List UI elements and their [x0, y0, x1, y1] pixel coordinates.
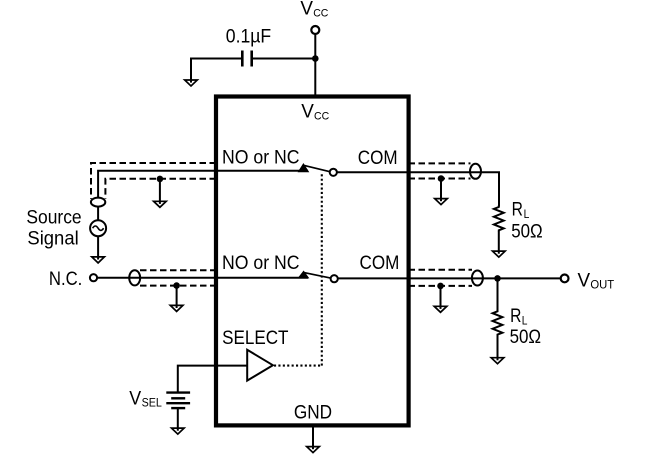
switch S1 throw contact arrowhead [299, 164, 309, 172]
switch S2 blade [304, 273, 331, 279]
node shield ground junction (bottom-right) [437, 283, 444, 290]
wire shield junction to ground (bottom-right) [440, 286, 442, 309]
buffer driver U2 [247, 350, 273, 381]
node shield ground junction (bottom-left) [173, 282, 180, 289]
node shield ground junction (top-right) [438, 175, 445, 182]
wire shield junction to ground (top-left) [159, 179, 161, 204]
svg-text:COM: COM [360, 253, 400, 274]
wire source to coax entry [97, 206, 99, 220]
coax entry ellipse (source cable) [91, 198, 105, 207]
svg-text:L: L [522, 314, 528, 327]
wire VSEL to buffer input [178, 366, 247, 392]
switch S2 throw contact arrowhead [299, 271, 309, 278]
wire resistor to ground (bottom) [497, 336, 499, 361]
shield upper dashed (bottom-right cable) [409, 269, 473, 271]
wire COM (bottom) to VOUT [338, 277, 561, 279]
svg-text:50Ω: 50Ω [511, 221, 543, 242]
coax entry ellipse (top-right cable) [470, 164, 481, 179]
terminal VOUT [561, 275, 569, 283]
svg-text:0.1µF: 0.1µF [226, 26, 271, 47]
wire junction to capacitor right plate [253, 58, 315, 60]
svg-text:GND: GND [294, 403, 332, 424]
ground (source) [92, 256, 105, 263]
wire N.C. to switch [97, 277, 308, 279]
label VSEL [129, 389, 162, 410]
svg-text:N.C.: N.C. [49, 269, 82, 290]
wire source cable center conductor [98, 171, 308, 198]
IC box U1 [216, 97, 409, 426]
svg-text:SEL: SEL [142, 395, 163, 409]
coax entry ellipse (bottom-right cable) [472, 271, 483, 286]
capacitor C1 0.1uF [242, 51, 251, 67]
wire output junction to resistor [497, 278, 499, 310]
svg-text:V: V [300, 0, 313, 20]
wire battery to ground [177, 408, 179, 431]
node output junction [494, 275, 501, 282]
label VOUT [578, 270, 615, 291]
node shield ground junction (top-left) [157, 176, 164, 183]
ground (bottom RL) [491, 357, 504, 364]
source V1 (sine source) [90, 220, 106, 236]
select control dotted line (horizontal) [274, 365, 322, 367]
wire GND pin [312, 428, 314, 450]
shield upper dashed (N.C. cable) [140, 269, 216, 271]
svg-text:50Ω: 50Ω [510, 327, 541, 348]
shield outer dashed (source cable) [91, 163, 216, 199]
wire shield junction to ground (bottom-left) [176, 286, 178, 308]
switch S2 pole contact circle [331, 275, 338, 282]
svg-text:R: R [510, 306, 521, 327]
svg-text:Source: Source [26, 207, 81, 228]
switch S1 pole contact circle [330, 169, 337, 176]
svg-text:Signal: Signal [27, 229, 78, 250]
terminal VCC [311, 26, 319, 34]
svg-text:NO or NC: NO or NC [222, 253, 300, 274]
ground (bottom-left shield) [170, 305, 183, 312]
coax entry ellipse (N.C. cable) [129, 270, 140, 285]
svg-text:V: V [129, 389, 141, 410]
wire VCC terminal to IC [314, 34, 316, 95]
ground (capacitor) [185, 80, 198, 87]
svg-text:SELECT: SELECT [222, 328, 289, 349]
select control dotted line (vertical) [321, 174, 323, 366]
resistor RL (top) [494, 206, 504, 232]
svg-text:V: V [301, 101, 314, 122]
shield upper dashed (top-right cable) [409, 162, 471, 164]
svg-text:R: R [512, 199, 523, 220]
wire shield junction to ground (top-right) [440, 179, 442, 202]
svg-text:V: V [578, 270, 591, 291]
wire source to ground [97, 236, 99, 259]
label VCC (top supply) [300, 0, 328, 20]
terminal N.C. [90, 274, 97, 281]
shield lower dashed (N.C. cable) [140, 285, 216, 287]
svg-text:NO or NC: NO or NC [222, 148, 300, 169]
svg-text:CC: CC [314, 110, 329, 122]
switch S1 blade [304, 165, 331, 172]
label VCC pin (inside IC) [301, 101, 329, 122]
wire resistor to ground (top) [498, 232, 500, 254]
label RL (top) [512, 199, 530, 220]
ground (top-left shield) [154, 201, 167, 208]
svg-text:CC: CC [313, 8, 328, 20]
svg-text:COM: COM [358, 148, 398, 169]
resistor RL (bottom) [493, 310, 503, 336]
label RL (bottom) [510, 306, 528, 328]
shield lower dashed (top-right cable) [409, 178, 471, 180]
svg-text:OUT: OUT [590, 278, 614, 292]
node junction VCC/cap [312, 55, 319, 62]
ground (bottom-right shield) [434, 306, 447, 313]
shield inner dashed (source cable) [105, 179, 216, 199]
svg-text:L: L [524, 208, 530, 221]
shield lower dashed (bottom-right cable) [409, 285, 473, 287]
ground (battery) [172, 428, 185, 435]
ground (GND pin) [307, 446, 320, 453]
ground (top RL) [493, 251, 506, 258]
wire COM (top) to output corner [337, 172, 499, 206]
ground (top-right shield) [435, 198, 448, 205]
battery VSEL [166, 393, 190, 409]
wire capacitor left plate to ground [191, 59, 241, 83]
